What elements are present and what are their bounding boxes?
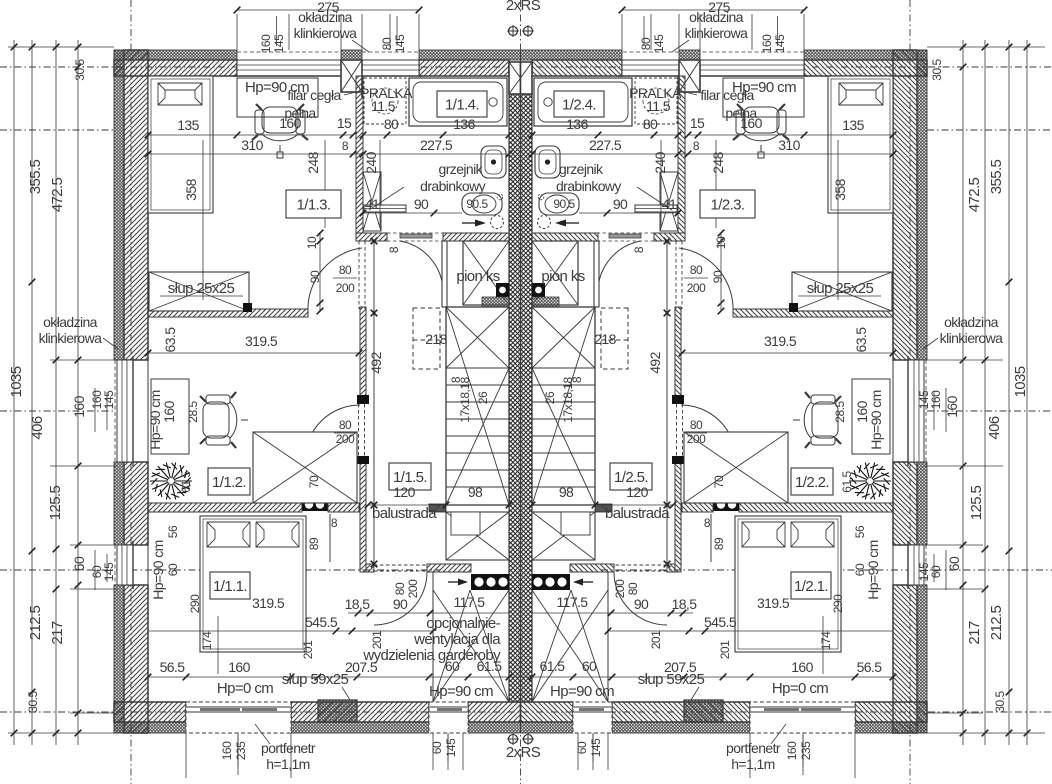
svg-text:2xRS: 2xRS bbox=[506, 0, 541, 14]
svg-text:28.5: 28.5 bbox=[186, 400, 200, 422]
svg-text:PRALKA: PRALKA bbox=[629, 85, 682, 101]
svg-text:słup 59x25: słup 59x25 bbox=[282, 671, 349, 688]
stairs: upper cross bbox=[446, 307, 509, 368]
furniture: pillows 1/1.1 bbox=[207, 522, 250, 547]
svg-text:319.5: 319.5 bbox=[764, 333, 797, 349]
svg-text:60: 60 bbox=[946, 556, 962, 571]
stairs: enclosure bbox=[446, 307, 509, 505]
wire: margin horizontals bbox=[8, 46, 114, 48]
shaft: top X box bbox=[509, 62, 521, 94]
svg-text:1/2.3.: 1/2.3. bbox=[711, 197, 745, 214]
svg-text:200: 200 bbox=[613, 579, 627, 598]
svg-text:61.5: 61.5 bbox=[840, 470, 854, 492]
svg-text:30.5: 30.5 bbox=[26, 690, 40, 712]
wall: bathroom west wall bbox=[356, 76, 363, 233]
svg-text:90: 90 bbox=[613, 196, 628, 212]
svg-text:117.5: 117.5 bbox=[557, 594, 589, 610]
svg-text:8: 8 bbox=[342, 139, 349, 153]
svg-text:klinkierowa: klinkierowa bbox=[940, 330, 1003, 346]
svg-text:125.5: 125.5 bbox=[47, 485, 64, 520]
svg-text:248: 248 bbox=[305, 151, 321, 173]
svg-text:30.5: 30.5 bbox=[930, 58, 944, 80]
svg-text:2xRS: 2xRS bbox=[506, 744, 541, 761]
svg-text:1/1.4.: 1/1.4. bbox=[445, 97, 479, 114]
fixture: electric box twin circles bbox=[302, 498, 328, 511]
svg-text:135: 135 bbox=[842, 117, 864, 133]
svg-text:1/1.3.: 1/1.3. bbox=[297, 197, 331, 214]
svg-text:10: 10 bbox=[714, 236, 728, 249]
svg-text:Hp=90 cm: Hp=90 cm bbox=[550, 683, 614, 700]
svg-text:80: 80 bbox=[339, 263, 352, 277]
svg-text:26: 26 bbox=[543, 391, 557, 404]
svg-text:240: 240 bbox=[652, 151, 668, 173]
svg-text:218: 218 bbox=[425, 331, 447, 347]
wall: bathroom south wall segment B bbox=[443, 233, 509, 241]
svg-text:opcjonalnie-: opcjonalnie- bbox=[426, 615, 500, 632]
svg-text:160: 160 bbox=[71, 395, 87, 417]
svg-text:okładzina: okładzina bbox=[689, 9, 744, 25]
svg-text:Hp=90 cm: Hp=90 cm bbox=[868, 390, 884, 449]
arrow: vent arrow bbox=[448, 581, 466, 583]
svg-text:8: 8 bbox=[632, 246, 646, 253]
svg-text:227.5: 227.5 bbox=[420, 137, 453, 153]
svg-text:wentylacja dla: wentylacja dla bbox=[413, 631, 501, 648]
svg-text:160: 160 bbox=[785, 741, 799, 760]
svg-text:70: 70 bbox=[712, 475, 726, 488]
window: portfenetr bottom left bbox=[186, 702, 291, 733]
svg-text:201: 201 bbox=[649, 630, 663, 649]
fixture: 2xRS top bbox=[509, 27, 518, 36]
furniture: desk 1/1.3 bbox=[237, 78, 318, 117]
svg-text:15: 15 bbox=[690, 115, 705, 131]
fixture: bathtub bbox=[409, 78, 507, 126]
svg-text:8: 8 bbox=[449, 376, 463, 383]
svg-text:1035: 1035 bbox=[8, 366, 25, 397]
dim: 492 vertical line bbox=[373, 241, 375, 564]
window: bottom 60x145 bbox=[429, 702, 468, 733]
svg-text:120: 120 bbox=[393, 484, 415, 500]
svg-text:117.5: 117.5 bbox=[454, 594, 486, 610]
svg-text:160: 160 bbox=[929, 390, 943, 409]
furniture: chair 1/1.2 bbox=[203, 395, 248, 445]
svg-text:80: 80 bbox=[393, 582, 407, 595]
svg-text:10: 10 bbox=[305, 236, 319, 249]
svg-text:63.5: 63.5 bbox=[853, 327, 869, 353]
svg-text:145: 145 bbox=[393, 34, 407, 53]
svg-text:120: 120 bbox=[626, 484, 648, 500]
column: filar cegla pelna (X box) bbox=[341, 60, 362, 92]
svg-text:135: 135 bbox=[177, 117, 199, 133]
svg-text:89: 89 bbox=[307, 537, 321, 550]
svg-text:90: 90 bbox=[711, 270, 725, 283]
fixture: washing machine outline bbox=[364, 78, 406, 124]
svg-text:1/2.4.: 1/2.4. bbox=[562, 97, 596, 114]
wire: centre axis bbox=[520, 0, 522, 784]
svg-text:filar cegła: filar cegła bbox=[287, 87, 341, 103]
wall: bottom cladding band bbox=[114, 722, 186, 733]
svg-text:160: 160 bbox=[220, 741, 234, 760]
window: top window 80 bbox=[362, 60, 419, 76]
wire: garderoba side wall bbox=[432, 572, 434, 702]
dim: 89 chain line bbox=[329, 514, 331, 562]
svg-text:18,5: 18,5 bbox=[345, 596, 371, 612]
svg-text:406: 406 bbox=[29, 416, 46, 439]
svg-text:61.5: 61.5 bbox=[179, 470, 193, 492]
svg-text:8: 8 bbox=[693, 139, 700, 153]
wardrobe: crossed built-in 1/1.2 bbox=[253, 432, 357, 503]
dim: interior verticals room 1/1.3 bbox=[202, 140, 204, 300]
wall: 1/1.2 south wall east part bbox=[328, 503, 359, 512]
svg-text:28.5: 28.5 bbox=[833, 400, 847, 422]
svg-text:136: 136 bbox=[453, 116, 475, 132]
fixture: bathroom tall cabinet X bbox=[363, 172, 381, 231]
svg-text:60: 60 bbox=[71, 556, 87, 571]
svg-text:60: 60 bbox=[575, 741, 589, 754]
svg-text:319.5: 319.5 bbox=[245, 333, 278, 349]
wall: bathroom south wall segment A bbox=[356, 233, 387, 241]
svg-text:227.5: 227.5 bbox=[589, 137, 622, 153]
furniture: bed 1/1.3 bbox=[148, 76, 213, 213]
wall: hall west wall upper bbox=[360, 307, 366, 396]
svg-text:200: 200 bbox=[336, 281, 355, 295]
svg-text:słup 25x25: słup 25x25 bbox=[168, 280, 235, 297]
svg-text:18,5: 18,5 bbox=[672, 596, 698, 612]
wall: top main band bbox=[114, 60, 237, 76]
svg-text:portfenetr: portfenetr bbox=[261, 740, 316, 756]
svg-text:pełna: pełna bbox=[284, 105, 316, 121]
furniture: desk 1/1.2 bbox=[151, 379, 189, 454]
svg-text:248: 248 bbox=[710, 151, 726, 173]
svg-text:1035: 1035 bbox=[1012, 366, 1029, 397]
svg-text:klinkierowa: klinkierowa bbox=[39, 330, 102, 346]
svg-text:61.5: 61.5 bbox=[540, 658, 566, 674]
svg-text:grzejnik: grzejnik bbox=[439, 161, 484, 177]
dim: garderoba 117.5 bbox=[433, 612, 509, 614]
svg-text:słup 25x25: słup 25x25 bbox=[807, 280, 874, 297]
svg-text:406: 406 bbox=[986, 416, 1003, 439]
window: left wall 60x145 bbox=[117, 545, 133, 585]
svg-text:218: 218 bbox=[594, 331, 616, 347]
wire: right wall vertical axis bbox=[909, 0, 911, 784]
svg-text:klinkierowa: klinkierowa bbox=[294, 25, 357, 41]
wall: hall west wall lower bbox=[360, 460, 366, 572]
svg-text:200: 200 bbox=[687, 432, 706, 446]
svg-text:355.5: 355.5 bbox=[27, 159, 44, 194]
svg-text:235: 235 bbox=[234, 741, 248, 760]
svg-text:235: 235 bbox=[799, 741, 813, 760]
svg-text:80: 80 bbox=[639, 37, 653, 50]
dim: bottom row 545.5 bbox=[148, 630, 433, 632]
wire: garderoba cross braces bbox=[433, 590, 509, 702]
svg-text:145: 145 bbox=[272, 34, 286, 53]
wire: portfenetr leader left bbox=[255, 724, 270, 744]
svg-text:drabinkowy: drabinkowy bbox=[556, 178, 621, 194]
svg-text:80: 80 bbox=[384, 116, 399, 132]
svg-text:80: 80 bbox=[380, 37, 394, 50]
svg-text:PRALKA: PRALKA bbox=[360, 85, 413, 101]
dim: hall 120 98 bbox=[368, 504, 509, 506]
svg-text:80: 80 bbox=[643, 116, 658, 132]
svg-text:Hp=0 cm: Hp=0 cm bbox=[772, 680, 828, 697]
fixture: toilet bbox=[481, 146, 506, 178]
svg-text:160: 160 bbox=[854, 400, 870, 422]
svg-text:160: 160 bbox=[259, 34, 273, 53]
svg-text:200: 200 bbox=[406, 579, 420, 598]
svg-text:8: 8 bbox=[570, 376, 584, 383]
svg-text:98: 98 bbox=[468, 484, 483, 500]
svg-text:1/2.1.: 1/2.1. bbox=[794, 578, 828, 595]
dim: corridor chain bbox=[319, 233, 321, 311]
stairs: lower flight below balustrade bbox=[446, 512, 509, 560]
svg-text:30.5: 30.5 bbox=[73, 58, 87, 80]
wire: left wall vertical axis bbox=[130, 0, 132, 784]
svg-text:1/1.1.: 1/1.1. bbox=[213, 578, 247, 595]
svg-text:358: 358 bbox=[183, 178, 199, 200]
svg-text:136: 136 bbox=[566, 116, 588, 132]
shaft: soot box bbox=[496, 283, 509, 297]
dim: left margin chains bbox=[13, 40, 15, 745]
svg-text:201: 201 bbox=[718, 640, 732, 659]
dim: room 1/1.2 width bbox=[148, 352, 359, 354]
svg-text:212.5: 212.5 bbox=[988, 605, 1005, 640]
svg-text:290: 290 bbox=[188, 594, 202, 613]
balustrade end bar bbox=[429, 504, 446, 512]
wire: margin axis y130 bbox=[0, 129, 114, 131]
svg-text:56: 56 bbox=[166, 525, 180, 538]
svg-text:okładzina: okładzina bbox=[944, 314, 999, 330]
arrow: bathroom entry arrow bbox=[462, 222, 480, 224]
svg-text:355.5: 355.5 bbox=[988, 159, 1005, 194]
dim: bathroom 90 line bbox=[363, 212, 462, 214]
svg-text:okładzina: okładzina bbox=[298, 9, 353, 25]
svg-text:56.5: 56.5 bbox=[160, 659, 186, 675]
svg-text:60: 60 bbox=[166, 563, 180, 576]
window: left wall 160x145 bbox=[117, 360, 133, 462]
svg-text:492: 492 bbox=[368, 351, 384, 373]
svg-text:Hp=90 cm: Hp=90 cm bbox=[865, 540, 881, 599]
svg-text:145: 145 bbox=[589, 738, 603, 757]
wall: left main band bbox=[124, 50, 148, 360]
svg-text:90: 90 bbox=[414, 196, 429, 212]
column: slup 59x25 in bottom wall bbox=[318, 700, 357, 722]
svg-text:Hp=90 cm: Hp=90 cm bbox=[429, 683, 493, 700]
svg-text:h=1,1m: h=1,1m bbox=[731, 756, 775, 772]
svg-text:60: 60 bbox=[929, 565, 943, 578]
svg-text:60: 60 bbox=[430, 741, 444, 754]
dim: row 18.5/90 y=613 bbox=[348, 612, 433, 614]
svg-text:drabinkowy: drabinkowy bbox=[420, 178, 485, 194]
fixture: ventilation grille block bbox=[471, 574, 509, 590]
fixture: radiator grzejnik bbox=[364, 205, 406, 212]
svg-text:145: 145 bbox=[102, 390, 116, 409]
door: 1/1.1 door arc bbox=[374, 564, 427, 566]
svg-text:319.5: 319.5 bbox=[252, 595, 285, 611]
svg-text:125.5: 125.5 bbox=[968, 485, 985, 520]
furniture: bed 1/1.1 bbox=[200, 516, 306, 652]
svg-text:1/1.2.: 1/1.2. bbox=[212, 474, 246, 491]
svg-text:słup 59x25: słup 59x25 bbox=[638, 671, 705, 688]
svg-text:56.5: 56.5 bbox=[857, 659, 883, 675]
shaft: central ventilation chase bbox=[509, 94, 521, 702]
stairs: dashed top landing bbox=[413, 308, 440, 369]
svg-text:472.5: 472.5 bbox=[966, 177, 983, 212]
svg-text:472.5: 472.5 bbox=[49, 177, 66, 212]
label texts bbox=[286, 190, 341, 218]
svg-text:90.5: 90.5 bbox=[553, 197, 575, 211]
wire: lower window axis across bbox=[0, 569, 440, 571]
svg-text:90.5: 90.5 bbox=[466, 197, 488, 211]
shaft: pion ks X box bbox=[463, 241, 509, 305]
wall: bottom main band bbox=[114, 702, 186, 722]
svg-text:545.5: 545.5 bbox=[704, 614, 737, 630]
wardrobe: crossed built-in 1/1.3 bbox=[149, 272, 249, 311]
svg-text:545.5: 545.5 bbox=[305, 614, 338, 630]
svg-text:h=1,1m: h=1,1m bbox=[266, 756, 310, 772]
door: room 1/1.3 door leaf + arc bbox=[358, 241, 360, 309]
svg-text:160: 160 bbox=[791, 659, 813, 675]
svg-text:217: 217 bbox=[966, 621, 983, 644]
svg-text:56: 56 bbox=[853, 525, 867, 538]
furniture: chair 1/1.3 bbox=[255, 107, 305, 158]
fixture: washbasin bbox=[462, 193, 502, 215]
svg-text:212.5: 212.5 bbox=[27, 605, 44, 640]
svg-text:90: 90 bbox=[308, 270, 322, 283]
svg-text:30.5: 30.5 bbox=[993, 690, 1007, 712]
svg-text:grzejnik: grzejnik bbox=[559, 161, 604, 177]
fixture: 2xRS bottom bbox=[509, 735, 518, 744]
wire: bottom margin verticals bbox=[185, 733, 187, 778]
svg-text:160: 160 bbox=[944, 395, 960, 417]
plant 1/1.2 bbox=[150, 463, 192, 500]
svg-text:41: 41 bbox=[365, 196, 380, 212]
dim: fraction dividers bbox=[276, 16, 278, 46]
svg-text:201: 201 bbox=[301, 640, 315, 659]
stairs: lower cross bbox=[446, 368, 509, 505]
svg-text:80: 80 bbox=[626, 582, 640, 595]
svg-text:145: 145 bbox=[652, 34, 666, 53]
svg-text:290: 290 bbox=[831, 594, 845, 613]
svg-text:balustrada: balustrada bbox=[372, 505, 437, 522]
svg-text:wydzielenia garderoby: wydzielenia garderoby bbox=[362, 647, 501, 664]
svg-text:90: 90 bbox=[393, 596, 408, 612]
svg-text:okładzina: okładzina bbox=[43, 314, 98, 330]
wall: hall south wall + garderoba bbox=[366, 564, 374, 572]
svg-text:145: 145 bbox=[917, 390, 931, 409]
svg-text:200: 200 bbox=[336, 432, 355, 446]
wire: window axis left mid bbox=[0, 410, 114, 412]
wire: okladzina leaders bbox=[103, 338, 118, 349]
wall: wardrobe wall room 1/1.3 south bbox=[148, 309, 308, 317]
svg-text:balustrada: balustrada bbox=[605, 505, 670, 522]
svg-text:160: 160 bbox=[161, 400, 177, 422]
svg-text:70: 70 bbox=[307, 475, 321, 488]
svg-text:80: 80 bbox=[690, 263, 703, 277]
svg-text:41: 41 bbox=[662, 196, 677, 212]
svg-text:145: 145 bbox=[102, 562, 116, 581]
wall: stair well west wall bbox=[442, 241, 447, 307]
svg-text:160: 160 bbox=[760, 34, 774, 53]
dim: room 1/1.3 width line bbox=[148, 134, 353, 136]
svg-text:Hp=0 cm: Hp=0 cm bbox=[217, 680, 273, 697]
door: bathroom door arc bbox=[400, 241, 443, 293]
wall: top cladding band bbox=[114, 50, 237, 60]
svg-text:8: 8 bbox=[387, 246, 401, 253]
svg-text:63.5: 63.5 bbox=[162, 327, 178, 353]
svg-text:portfenetr: portfenetr bbox=[726, 740, 781, 756]
svg-text:15: 15 bbox=[337, 115, 352, 131]
svg-text:pion ks: pion ks bbox=[541, 268, 584, 285]
svg-text:1/2.2.: 1/2.2. bbox=[795, 474, 829, 491]
furniture: pillow bbox=[158, 83, 202, 105]
column: slup 25x25 black bbox=[243, 303, 252, 312]
svg-text:8: 8 bbox=[331, 516, 338, 530]
svg-text:klinkierowa: klinkierowa bbox=[685, 25, 748, 41]
svg-text:filar cegła: filar cegła bbox=[700, 87, 754, 103]
svg-text:174: 174 bbox=[819, 631, 833, 650]
svg-text:174: 174 bbox=[200, 631, 214, 650]
dim: bottom row y=677 bbox=[148, 676, 893, 678]
wall: left cladding band bbox=[114, 50, 124, 360]
svg-text:200: 200 bbox=[687, 281, 706, 295]
svg-text:80: 80 bbox=[690, 418, 703, 432]
svg-text:145: 145 bbox=[444, 738, 458, 757]
svg-text:80: 80 bbox=[339, 418, 352, 432]
svg-text:8: 8 bbox=[704, 516, 711, 530]
svg-text:90: 90 bbox=[634, 596, 649, 612]
svg-text:145: 145 bbox=[917, 562, 931, 581]
wire: portfenetr leader right bbox=[771, 724, 786, 744]
svg-text:145: 145 bbox=[773, 34, 787, 53]
svg-text:98: 98 bbox=[559, 484, 574, 500]
svg-text:160: 160 bbox=[228, 659, 250, 675]
wire: horizontal wall axis top bbox=[0, 66, 1052, 68]
svg-text:pełna: pełna bbox=[725, 105, 757, 121]
svg-text:pion ks: pion ks bbox=[456, 268, 499, 285]
svg-text:60: 60 bbox=[582, 658, 597, 674]
svg-text:310: 310 bbox=[778, 137, 800, 153]
svg-text:319.5: 319.5 bbox=[757, 595, 790, 611]
dim: top 275 lines bbox=[237, 9, 419, 11]
svg-text:89: 89 bbox=[712, 537, 726, 550]
svg-text:240: 240 bbox=[363, 151, 379, 173]
wall: 1/1.2 south wall bbox=[148, 503, 302, 512]
door: hall-1/1.2 door leaf bbox=[358, 404, 360, 456]
wire: window axis right mid bbox=[927, 410, 1052, 412]
svg-text:358: 358 bbox=[832, 178, 848, 200]
stairs: treads bbox=[446, 367, 509, 369]
door: bathroom threshold bbox=[400, 234, 432, 238]
svg-text:Hp=90 cm: Hp=90 cm bbox=[150, 540, 166, 599]
svg-text:310: 310 bbox=[241, 137, 263, 153]
wire: horizontal wall axis bottom bbox=[0, 711, 1052, 713]
window: top window 160 bbox=[237, 60, 341, 76]
svg-text:217: 217 bbox=[49, 621, 66, 644]
svg-text:26: 26 bbox=[476, 391, 490, 404]
svg-text:492: 492 bbox=[647, 351, 663, 373]
